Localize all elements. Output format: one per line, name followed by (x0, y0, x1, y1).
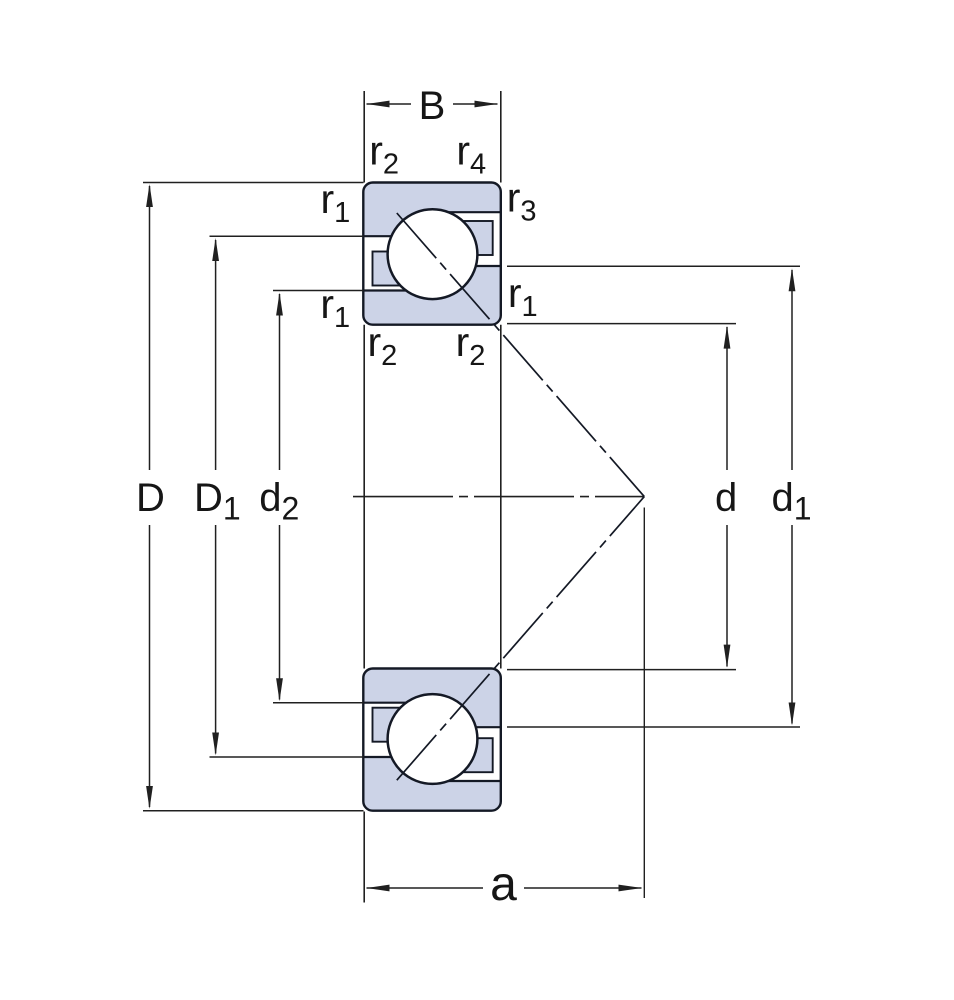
dimension d2 (273, 291, 364, 703)
bore line right (B extension / shaft line) (500, 91, 502, 669)
dimension d (507, 324, 736, 670)
main horizontal centerline (353, 496, 644, 498)
contact line bottom (397, 497, 645, 781)
apex extension vertical (643, 508, 645, 899)
dimension D (143, 183, 364, 811)
dimension a (367, 887, 642, 889)
svg-text:r1: r1 (508, 270, 538, 323)
contact line top (397, 213, 645, 497)
svg-text:d2: d2 (259, 476, 299, 527)
svg-text:r1: r1 (321, 176, 351, 229)
top bearing section (362, 183, 502, 325)
dimension B (367, 103, 498, 105)
svg-text:D: D (136, 476, 165, 520)
svg-text:d1: d1 (772, 476, 812, 527)
bore line left (B extension / shaft line) (363, 91, 365, 903)
svg-text:r2: r2 (369, 128, 399, 181)
svg-text:d: d (715, 476, 737, 520)
bottom bearing section (mirrored) (362, 669, 502, 811)
svg-text:r2: r2 (456, 319, 486, 372)
svg-text:a: a (490, 858, 517, 911)
dimension d1 (507, 266, 800, 727)
svg-text:r3: r3 (507, 175, 537, 228)
dimension D1 (210, 236, 364, 757)
svg-text:D1: D1 (194, 476, 241, 527)
svg-text:r1: r1 (320, 281, 350, 334)
svg-text:r2: r2 (368, 319, 398, 372)
svg-text:r4: r4 (456, 128, 486, 181)
svg-text:B: B (419, 84, 446, 128)
